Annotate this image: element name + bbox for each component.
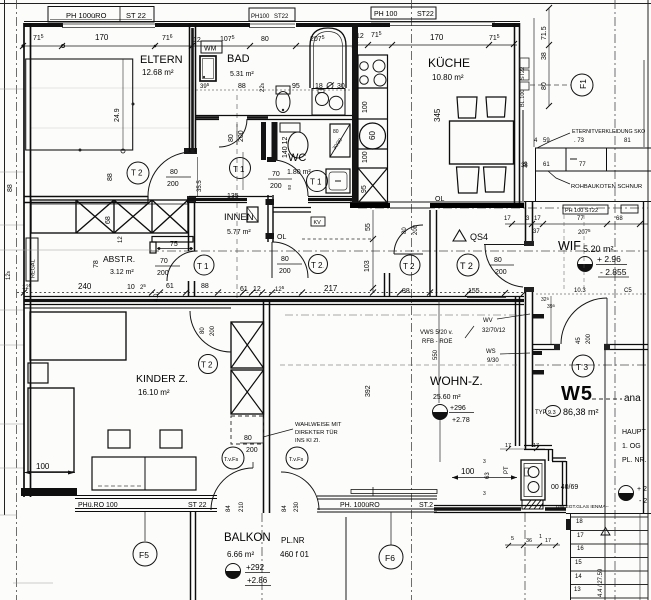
svg-text:88: 88 [201,283,209,290]
WC left wall [261,122,266,160]
balcony divider line [345,517,347,600]
door circle T1 [194,255,214,275]
svg-text:200: 200 [167,181,179,188]
svg-text:12: 12 [193,37,201,44]
svg-text:45: 45 [576,337,582,344]
right wall of corridor upper [526,202,533,450]
stove 4 burners [360,60,386,86]
grid axis dash-dot horizontal y251 [150,250,648,252]
svg-text:392: 392 [365,385,372,397]
svg-text:17: 17 [577,533,584,539]
svg-text:14: 14 [575,574,582,580]
dimension line mid with ticks [17,292,524,294]
svg-text:80: 80 [244,435,252,442]
svg-text:ST.2: ST.2 [419,502,433,509]
svg-text:88: 88 [107,173,114,181]
svg-text:WS: WS [486,349,496,355]
svg-text:68: 68 [105,216,112,224]
INNEN top wall [189,197,352,203]
svg-text:ELTERN: ELTERN [140,54,183,66]
washbasin square WC [326,169,350,193]
svg-text:95: 95 [292,83,300,90]
svg-text:35.5: 35.5 [197,180,203,192]
svg-text:DIREKTER TÜR: DIREKTER TÜR [295,429,338,436]
svg-text:BL.100: BL.100 [520,90,526,107]
svg-text:88: 88 [402,288,410,295]
shaft dashed box [231,416,264,444]
dim row BAD y90 [196,89,355,91]
svg-text:ROHBAUKOTEN SCHNUR: ROHBAUKOTEN SCHNUR [571,184,642,190]
svg-text:ETERNITVERKLEIDUNG SKO: ETERNITVERKLEIDUNG SKO [572,129,645,135]
svg-text:10: 10 [127,284,135,291]
svg-text:ana: ana [624,393,641,404]
svg-text:1. OG: 1. OG [622,443,641,450]
door arc KINDER top [190,311,231,352]
svg-text:200: 200 [413,224,419,235]
svg-text:OL: OL [435,196,444,203]
vertical dim 71.5 38 80 [548,8,550,106]
stair dark block [566,519,571,530]
svg-text:+296: +296 [450,405,466,412]
grid axis dash-dot horizontal y208 [358,207,648,209]
bed ELTERN [26,59,133,150]
F6 marker [390,512,392,545]
top outer wall thick segments [24,23,520,27]
shaft X box 1 [231,322,264,368]
svg-text:103: 103 [364,260,371,272]
svg-text:QS4: QS4 [470,232,488,242]
stair treads [571,517,648,598]
svg-text:- 2: - 2 [639,498,647,505]
svg-text:100: 100 [362,151,369,163]
svg-text:+ 2.96: + 2.96 [597,254,621,264]
grid axis dash-dot vertical x615 [614,0,616,600]
svg-text:T.v.Fs: T.v.Fs [224,457,239,463]
svg-text:15: 15 [575,560,582,566]
double washbasin [312,89,345,116]
wall right of ABST.R [189,198,195,296]
svg-text:T 2: T 2 [403,262,415,271]
door arc KUECHE [394,225,423,254]
door circle T.v.Fs right [286,447,308,469]
svg-text:C5: C5 [624,288,632,294]
svg-text:140 12: 140 12 [282,136,289,158]
kitchen left wall [352,23,358,203]
door circle T.v.Fs left [222,447,244,469]
svg-text:80: 80 [170,169,178,176]
toilet BAD [276,86,290,94]
beam dashed line WOHN [280,364,520,366]
ELTERN bottom wall [24,197,148,203]
wall ELTERN right / BAD left [190,23,196,152]
svg-text:WM: WM [204,46,217,53]
WOHN bottom wall [434,506,566,513]
wall x605 lower right [604,348,606,513]
svg-text:170: 170 [430,33,444,42]
svg-text:17: 17 [505,443,511,449]
ABST.R niche wall horizontal [152,237,193,243]
svg-text:REGAL: REGAL [31,259,37,278]
window bar above band [351,490,437,494]
svg-text:ST22: ST22 [520,67,526,80]
svg-text:200: 200 [270,183,282,190]
entry threshold box [247,207,258,222]
svg-text:460 f 01: 460 f 01 [280,550,309,559]
svg-text:78: 78 [93,260,100,268]
svg-text:4.4 / 27.59: 4.4 / 27.59 [598,568,604,597]
kitchen table [450,121,514,164]
balcony band right (WOHN window) [317,496,437,512]
mid wall long [24,297,524,305]
svg-text:5.20 m²: 5.20 m² [583,244,614,254]
svg-text:80: 80 [541,82,548,90]
svg-text:200: 200 [495,269,507,276]
svg-text:100: 100 [461,467,475,476]
svg-text:80: 80 [281,256,289,263]
ABST.R niche wall vertical [150,242,156,253]
svg-text:F1: F1 [578,79,588,89]
wall x430-437 [430,210,437,296]
svg-text:5.77 m²: 5.77 m² [227,229,251,236]
level marker stairs [619,486,634,501]
svg-text:. 73: . 73 [574,138,585,144]
svg-text:12.68 m²: 12.68 m² [142,68,174,77]
beam band right [523,110,651,201]
door circle T2 kitchen [400,255,420,275]
svg-text:PH100: PH100 [251,14,270,20]
dash-dot vertical x525 lower [524,513,526,600]
svg-text:17: 17 [534,216,541,222]
svg-text:70: 70 [160,258,168,265]
svg-text:PH 100 ST22: PH 100 ST22 [565,208,598,214]
svg-text:5.31 m²: 5.31 m² [230,71,254,78]
svg-text:W5: W5 [561,383,593,405]
svg-text:3.12 m²: 3.12 m² [110,269,134,276]
svg-text:80: 80 [261,36,269,43]
wall x384-389 [385,273,390,296]
bed KINDER [28,388,74,472]
svg-text:80: 80 [228,134,235,142]
svg-text:230: 230 [294,501,300,512]
washing machine [200,56,216,81]
chairs [457,97,507,193]
grid axis dash-dot vertical x412 [411,0,413,600]
balcony band left (KINDER window) [75,496,217,512]
left outer wall double line [24,23,31,497]
WM label box [201,41,222,53]
svg-text:3: 3 [483,491,486,497]
svg-text:10.3: 10.3 [574,288,586,294]
svg-text:93: 93 [287,184,292,190]
svg-text:3: 3 [483,459,486,465]
svg-text:17: 17 [504,216,511,222]
svg-text:T.v.Fs: T.v.Fs [289,457,304,463]
svg-text:68: 68 [616,216,623,222]
svg-text:ST 22: ST 22 [188,502,207,509]
shaft wall right of KINDER [264,300,270,513]
svg-text:RFB - ROE: RFB - ROE [422,339,452,345]
door jamb ELTERN [187,196,196,203]
vertical dim line x373: 55 / 103 [372,210,374,292]
svg-text:5: 5 [511,536,514,542]
top outer wall thin face line [24,21,520,23]
svg-text:PH 100üRO: PH 100üRO [66,11,107,20]
svg-text:200: 200 [279,268,291,275]
svg-text:ST22: ST22 [274,14,289,20]
balcony door arc right [281,472,319,510]
level marker BALKON [226,564,241,579]
svg-text:PHü.RO 100: PHü.RO 100 [78,502,118,509]
entry door arc [485,245,523,287]
svg-text:100: 100 [36,462,50,471]
F5 marker [144,512,146,541]
svg-text:T 2: T 2 [131,169,143,178]
svg-text:+2.86: +2.86 [247,576,268,585]
kitchen bottom line [350,201,524,203]
svg-text:25.60 m²: 25.60 m² [433,394,461,401]
small box KINDER [28,363,48,383]
svg-text:88: 88 [7,184,14,192]
WIF interior dashed verticals [563,215,565,290]
svg-text:80: 80 [200,327,206,334]
window label box PH 100 uRO / ST22 (ELTERN) [48,7,154,23]
svg-text:VWS 5/20 v.: VWS 5/20 v. [420,330,453,336]
wall below corridor [524,446,567,507]
svg-text:70: 70 [272,171,280,178]
svg-text:WV: WV [483,318,493,324]
svg-text:+292: +292 [246,563,265,572]
svg-text:75: 75 [170,241,178,248]
svg-text:200: 200 [586,333,592,344]
svg-text:61: 61 [166,283,174,290]
dimension row top-left: 71.5 170 71.5 12 [23,45,517,46]
door circle T1 BAD [230,158,251,179]
svg-text:4.0: 4.0 [154,293,160,302]
svg-text:PT: PT [504,466,510,474]
window sill lines [62,22,495,28]
svg-text:16: 16 [577,546,584,552]
KINDER wall face line [24,307,231,309]
svg-text:OL: OL [277,234,286,241]
svg-text:F6: F6 [385,553,395,563]
svg-text:WC: WC [288,152,306,164]
door arc WC [272,160,308,196]
svg-text:80: 80 [402,227,408,234]
svg-text:80: 80 [494,257,502,264]
svg-text:ST22: ST22 [417,11,434,18]
stairs area [566,513,651,515]
svg-text:PL. NR.: PL. NR. [622,457,647,464]
svg-text:200: 200 [238,130,245,142]
door circle T2 entry [457,254,479,276]
svg-text:+2.78: +2.78 [452,417,470,424]
svg-text:T 1: T 1 [310,178,322,187]
svg-text:1: 1 [539,534,542,540]
svg-text:F5: F5 [139,550,149,560]
svg-text:84: 84 [282,505,288,512]
svg-text:WAHLWEISE MIT: WAHLWEISE MIT [295,422,342,428]
door arc BAD [219,119,247,147]
door ABST.R arc [167,251,197,281]
svg-text:18: 18 [576,519,583,525]
svg-text:38: 38 [541,52,548,60]
chair 1 [108,430,130,448]
svg-text:37: 37 [533,229,540,235]
svg-text:INS KI ZI.: INS KI ZI. [295,438,321,444]
right wall WIF [643,202,645,513]
dim 155 line [467,297,506,299]
svg-text:17: 17 [545,538,551,544]
svg-text:12: 12 [253,286,261,293]
faint margin construction lines [0,88,189,583]
balcony door arc left [211,468,253,510]
svg-text:UNLEGT.GLAS IENMA--: UNLEGT.GLAS IENMA-- [556,504,609,510]
svg-text:9.3: 9.3 [548,410,556,416]
svg-text:BAD: BAD [227,53,250,65]
svg-text:60: 60 [368,131,377,140]
svg-text:KÜCHE: KÜCHE [428,56,470,70]
svg-text:88: 88 [238,83,246,90]
svg-text:71.5: 71.5 [541,26,548,40]
svg-text:80: 80 [333,129,339,135]
svg-text:T 2: T 2 [201,361,213,370]
svg-text:WIF: WIF [558,239,581,253]
svg-text:KINDER Z.: KINDER Z. [136,373,188,385]
svg-text:55: 55 [365,223,372,231]
leader line level WOHN [438,300,440,403]
window label box PH100 ST22 (BAD) [249,8,295,21]
svg-text:200: 200 [157,270,169,277]
svg-text:59: 59 [543,138,550,144]
small boxes right of kitchen wall [520,58,529,90]
svg-text:+ 2: + 2 [637,486,647,493]
svg-text:77: 77 [577,216,584,222]
wardrobe KINDER [30,312,126,360]
bathtub [310,28,346,88]
shelf REGAL [26,238,38,281]
kitchen counter strip [358,55,388,203]
kitchenette sink unit [521,460,545,500]
svg-text:100: 100 [362,101,369,113]
svg-text:T 3: T 3 [576,362,588,372]
kitchen right wall [515,23,520,204]
door circle T2 [127,162,149,184]
shaft X box kitchen [358,168,388,203]
svg-text:217: 217 [324,284,338,293]
svg-text:63: 63 [485,472,491,479]
svg-text:KV: KV [314,220,322,226]
svg-text:TYP: TYP [535,410,547,416]
svg-text:550: 550 [433,349,439,360]
hatched block below kitchenette [522,500,543,509]
svg-text:INNEN: INNEN [224,212,254,223]
wardrobe hatched row ELTERN/ABST [31,200,188,233]
door circle T2 INNEN [309,255,328,274]
door leaf + arc INNEN-KINDER [271,242,273,278]
svg-text:345: 345 [433,108,442,122]
svg-text:36: 36 [526,538,532,544]
svg-text:BALKON: BALKON [224,532,271,544]
KINDER bottom wall [21,488,77,496]
stair triangle marker [601,528,610,536]
svg-text:WOHN-Z.: WOHN-Z. [430,374,483,388]
QS4 marker triangle [453,230,466,241]
svg-text:24.9: 24.9 [114,108,121,122]
page left edge line [4,0,6,515]
svg-text:240: 240 [78,282,92,291]
svg-text:PL.NR: PL.NR [281,536,305,545]
KV box [311,217,325,226]
door circle T1 WC [307,171,328,192]
svg-text:ABST.R.: ABST.R. [103,254,135,264]
toilet WC [280,123,300,132]
svg-text:T 2.: T 2. [311,261,324,270]
svg-text:200: 200 [210,325,216,336]
svg-text:- 2.855: - 2.855 [600,267,627,277]
dash-dot vertical x262 balcony [261,513,263,600]
svg-text:6.66 m²: 6.66 m² [227,550,254,559]
window label box PH 100 ST22 (KUECHE) [371,7,436,19]
svg-text:61: 61 [543,162,550,168]
svg-text:38: 38 [521,163,528,169]
shaft X box 2 [231,370,264,414]
right page edge line [647,0,649,600]
svg-text:170: 170 [95,33,109,42]
chair 2 [160,430,182,448]
svg-text:12: 12 [118,236,124,243]
WIF top wall line [524,201,651,203]
sink circle 60 [360,123,386,149]
svg-text:ST 22: ST 22 [126,11,146,20]
svg-text:95: 95 [361,185,368,193]
level marker WOHN [433,405,448,420]
desk KINDER [92,457,196,490]
WIF door arc [561,298,607,344]
svg-text:00 40/69: 00 40/69 [551,484,578,491]
BAD bottom wall [196,116,352,120]
level marker WIF [578,257,593,272]
svg-text:13: 13 [574,587,581,593]
window label box WIF [563,205,608,214]
shaft box 30/30 [330,124,350,157]
door arc ELTERN T2 [148,152,192,196]
svg-text:T 2: T 2 [460,261,473,271]
svg-text:84: 84 [226,505,232,512]
svg-text:T 1: T 1 [197,262,209,271]
right outer wall upper [643,60,645,147]
F1 marker [571,74,593,96]
svg-text:86,38 m²: 86,38 m² [563,407,599,417]
svg-text:81: 81 [624,138,631,144]
svg-text:77: 77 [579,162,586,168]
svg-text:HAUPT: HAUPT [622,429,646,436]
svg-text:10.80 m²: 10.80 m² [432,73,464,82]
svg-text:200: 200 [246,447,258,454]
svg-text:32/70/12: 32/70/12 [482,328,506,334]
wall INNEN/WOHN door vertical [268,195,273,242]
svg-text:16.10 m²: 16.10 m² [138,388,170,397]
door circle T2 KINDER [199,355,218,374]
balcony left wall [191,512,196,600]
svg-text:PH. 100üRO: PH. 100üRO [340,502,380,509]
svg-text:210: 210 [239,501,245,512]
svg-text:PH 100: PH 100 [374,11,397,18]
entry door leaf [484,244,527,246]
door circle T3 [572,355,594,377]
svg-text:9/30: 9/30 [487,358,499,364]
WIF bottom wall [533,345,648,350]
